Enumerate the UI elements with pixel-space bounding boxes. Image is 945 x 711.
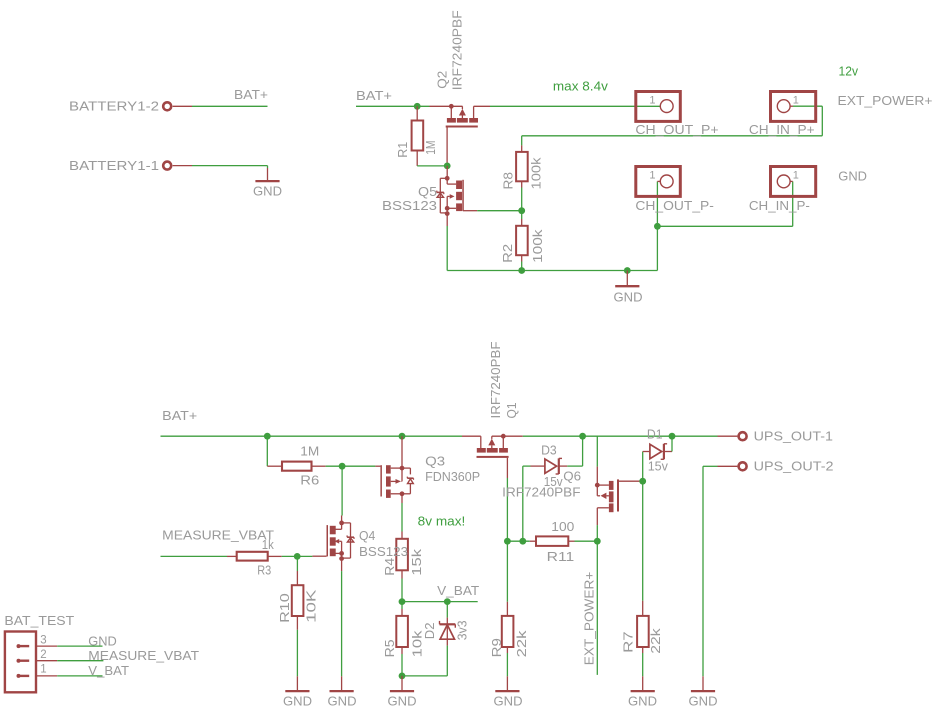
resistor R4 15k	[382, 532, 424, 579]
svg-text:GND: GND	[628, 693, 657, 708]
node junction R2/rail	[518, 267, 525, 274]
svg-text:R6: R6	[300, 472, 319, 487]
svg-text:UPS_OUT-1: UPS_OUT-1	[754, 428, 833, 443]
pin 3	[36, 645, 57, 647]
ground GND (UPS_OUT-2)	[689, 676, 718, 708]
svg-text:GND: GND	[253, 183, 282, 198]
transistor Q5 BSS123	[382, 166, 477, 226]
resistor R1 1M	[395, 106, 438, 166]
node junction BAT+/Q3	[399, 433, 406, 440]
svg-text:Q1: Q1	[504, 403, 519, 419]
svg-text:GND: GND	[88, 633, 117, 648]
wire Q5 source down	[446, 226, 448, 271]
connector CH_OUT_P-	[635, 167, 714, 213]
svg-text:D3: D3	[541, 442, 557, 457]
ground GND (Q4)	[328, 676, 357, 708]
svg-text:12v: 12v	[839, 64, 859, 79]
svg-text:1: 1	[40, 664, 46, 676]
resistor R8 100k	[501, 145, 544, 189]
svg-text:R1: R1	[395, 142, 410, 158]
svg-text:BSS123: BSS123	[382, 198, 437, 213]
svg-text:CH_OUT_P-: CH_OUT_P-	[635, 198, 714, 213]
connector pin BATTERY1-1	[69, 158, 192, 173]
pin 2	[36, 660, 57, 662]
svg-text:CH_IN_P-: CH_IN_P-	[749, 198, 810, 213]
svg-text:GND: GND	[689, 693, 718, 708]
svg-text:1M: 1M	[300, 443, 319, 458]
wire D3 anode riser	[523, 466, 531, 541]
wire net V_BAT stub (BAT_TEST pin 1)	[57, 663, 129, 678]
svg-text:R11: R11	[547, 549, 575, 564]
svg-text:GND: GND	[614, 290, 643, 305]
wire Q1 gate down	[506, 478, 508, 541]
svg-text:R4: R4	[382, 558, 397, 576]
wire Q5 gate to divider	[477, 210, 522, 212]
svg-text:R8: R8	[501, 172, 516, 189]
wire battery1-1 to ground	[192, 166, 268, 168]
svg-text:GND: GND	[328, 693, 357, 708]
node junction BAT+/R1	[414, 103, 421, 110]
wire R2 to bottom rail	[521, 262, 523, 271]
svg-text:max 8.4v: max 8.4v	[553, 78, 609, 93]
resistor R6 1M	[267, 443, 325, 487]
wire R9 top	[506, 541, 508, 602]
svg-text:FDN360P: FDN360P	[425, 469, 480, 484]
svg-text:GND: GND	[494, 693, 523, 708]
node junction R3/R10	[294, 553, 301, 560]
wire R1 to Q5 drain	[417, 165, 447, 167]
wire net BAT+ top rail left	[356, 88, 430, 106]
wire Q6 drain to R11 node	[596, 525, 598, 541]
wire R3 to Q4 gate	[282, 555, 313, 557]
wire net BAT+ to CH_OUT_P+	[490, 105, 660, 107]
wire D2 to ground rail	[402, 646, 447, 676]
diode D3 15v zener	[531, 442, 568, 489]
svg-text:1: 1	[793, 95, 799, 107]
svg-text:R2: R2	[500, 244, 515, 263]
node junction CH_OUT_P-/CH_IN_P-	[654, 223, 661, 230]
resistor R11 100	[530, 519, 575, 564]
svg-text:100: 100	[551, 519, 574, 534]
wire net MEASURE_VBAT stub (BAT_TEST pin 2)	[57, 648, 199, 663]
node junction Q6gate/D1/R7	[639, 478, 646, 485]
wire D3 cathode to rail	[567, 436, 582, 466]
connector pin UPS_OUT-1	[718, 428, 834, 443]
svg-text:BSS123: BSS123	[359, 544, 408, 559]
svg-text:BATTERY1-2: BATTERY1-2	[69, 99, 159, 114]
transistor Q6 IRF7240PBF	[502, 467, 643, 525]
connector CH_IN_P-	[749, 167, 816, 213]
svg-text:GND: GND	[283, 693, 312, 708]
wire Q6 gate node down to R7	[642, 481, 644, 601]
wire R7 bottom	[642, 653, 644, 676]
svg-text:BAT+: BAT+	[356, 88, 392, 103]
wire R4 to V_BAT node	[401, 579, 403, 602]
node junction R11/Q6/EXT_POWER+	[594, 538, 601, 545]
svg-text:22k: 22k	[514, 630, 529, 657]
svg-text:15v: 15v	[648, 458, 669, 473]
SECTION-TOP	[69, 10, 933, 304]
node junction D3/R11	[519, 538, 526, 545]
svg-text:CH_IN_P+: CH_IN_P+	[749, 122, 815, 137]
wire D1 cathode to rail	[671, 436, 673, 451]
svg-text:Q5: Q5	[418, 184, 437, 199]
ground GND (R10)	[283, 676, 312, 708]
diode D1 15v zener	[643, 426, 672, 473]
connector CH_IN_P+	[749, 92, 816, 138]
wire UPS_OUT-2 to ground	[703, 466, 718, 676]
svg-text:Q2: Q2	[435, 71, 450, 89]
node junction R4/R5/V_BAT	[399, 598, 406, 605]
node junction Q1gate/R9/R11	[504, 538, 511, 545]
svg-text:8v max!: 8v max!	[418, 514, 466, 529]
node junction R6/Q4	[339, 463, 346, 470]
connector CH_OUT_P+	[635, 92, 718, 138]
transistor Q2 IRF7240PBF	[430, 10, 491, 166]
svg-text:15k: 15k	[409, 548, 424, 575]
svg-text:Q6: Q6	[563, 468, 581, 483]
ground GND (R9)	[494, 676, 523, 708]
wire R6 to Q3 gate	[326, 465, 376, 467]
resistor R7 22k	[621, 601, 663, 654]
wire net MEASURE_VBAT	[161, 555, 228, 557]
svg-text:GND: GND	[388, 693, 417, 708]
wire junction to R2	[521, 211, 523, 219]
transistor Q1 IRF7240PBF	[462, 341, 523, 478]
resistor R3 1k	[227, 537, 282, 577]
connector pin UPS_OUT-2	[718, 458, 834, 473]
resistor R5 10k	[382, 609, 425, 657]
wire net V_BAT	[402, 583, 479, 602]
svg-text:IRF7240PBF: IRF7240PBF	[450, 10, 465, 90]
wire net CH_OUT/R8 top	[522, 106, 823, 145]
svg-text:100k: 100k	[529, 157, 544, 190]
svg-text:EXT_POWER+: EXT_POWER+	[838, 93, 933, 108]
wire R8 bottom	[521, 188, 523, 211]
wire junction to D3 node	[507, 540, 529, 542]
svg-text:1M: 1M	[423, 141, 438, 155]
wire R5 bottom	[401, 654, 403, 676]
svg-text:3: 3	[40, 635, 46, 647]
transistor Q4 BSS123	[312, 516, 408, 572]
wire net EXT_POWER+ stub	[582, 541, 598, 675]
connector pin BATTERY1-2	[69, 99, 192, 114]
pin 1	[36, 675, 57, 677]
svg-text:10k: 10k	[409, 630, 424, 657]
svg-text:R10: R10	[277, 593, 292, 623]
wire rail down to Q6	[596, 436, 598, 466]
wire Q4 source to ground	[341, 571, 343, 676]
node junction rail/D3	[579, 433, 586, 440]
svg-text:R7: R7	[621, 631, 636, 653]
svg-text:IRF7240PBF: IRF7240PBF	[488, 341, 503, 418]
svg-text:CH_OUT_P+: CH_OUT_P+	[635, 122, 718, 137]
wire rail up to CH_OUT_P-	[656, 181, 658, 270]
resistor R9 22k	[489, 602, 529, 658]
wire R5 top	[401, 602, 403, 609]
svg-text:BAT+: BAT+	[162, 408, 197, 423]
node junction R8/R2/Q5gate	[518, 207, 525, 214]
wire Q6 gate node up to D1	[642, 452, 644, 482]
svg-text:1k: 1k	[262, 537, 274, 552]
svg-text:3v3: 3v3	[454, 621, 469, 641]
ground GND (R5)	[388, 676, 417, 709]
svg-text:100k: 100k	[530, 229, 545, 263]
svg-text:D1: D1	[647, 426, 663, 441]
wire net BAT+ (battery stub)	[192, 87, 268, 107]
svg-text:2: 2	[40, 649, 46, 661]
svg-text:IRF7240PBF: IRF7240PBF	[502, 484, 580, 499]
transistor Q3 FDN360P	[375, 436, 480, 503]
wire R9 bottom	[506, 653, 508, 676]
ground GND (battery)	[253, 168, 282, 198]
svg-text:R9: R9	[489, 638, 504, 657]
wire Q3 to R4	[401, 503, 403, 532]
svg-text:Q3: Q3	[425, 454, 445, 469]
wire R6 node down to Q4	[341, 466, 343, 515]
node junction rail/D1	[669, 433, 676, 440]
svg-text:BAT_TEST: BAT_TEST	[4, 613, 74, 628]
svg-text:R5: R5	[382, 640, 397, 658]
svg-text:V_BAT: V_BAT	[88, 663, 129, 678]
svg-text:1: 1	[793, 170, 799, 182]
node junction R1/Q5	[444, 163, 451, 170]
node junction rail/GND	[624, 267, 631, 274]
node junction BAT+/R6	[264, 433, 271, 440]
svg-text:BAT+: BAT+	[234, 87, 268, 102]
svg-text:MEASURE_VBAT: MEASURE_VBAT	[88, 648, 199, 663]
diode D2 3v3 zener	[422, 618, 470, 646]
SECTION-BOTTOM	[4, 341, 833, 708]
wire net GND stub (BAT_TEST pin 3)	[57, 633, 117, 648]
svg-text:MEASURE_VBAT: MEASURE_VBAT	[162, 528, 274, 543]
node junction R5/D2/GND	[399, 673, 406, 680]
svg-text:EXT_POWER+: EXT_POWER+	[582, 572, 597, 666]
wire R10 top	[296, 556, 298, 571]
wire V_BAT down to D2	[446, 602, 448, 618]
svg-text:22k: 22k	[648, 628, 663, 654]
ground GND (charger divider)	[614, 271, 643, 305]
wire BAT+ down to R6	[266, 436, 268, 466]
resistor R2 100k	[500, 219, 545, 263]
svg-text:10K: 10K	[304, 589, 319, 623]
wire bottom rail of charger divider	[447, 270, 657, 272]
svg-text:GND: GND	[838, 168, 867, 183]
svg-text:BATTERY1-1: BATTERY1-1	[69, 158, 159, 173]
svg-text:UPS_OUT-2: UPS_OUT-2	[754, 458, 834, 473]
wire R10 to ground	[296, 630, 298, 677]
resistor R10 10K	[277, 571, 318, 630]
wire net BAT+ lower rail	[161, 435, 718, 437]
svg-text:V_BAT: V_BAT	[437, 583, 479, 598]
ground GND (R7)	[628, 676, 657, 708]
svg-text:1: 1	[649, 170, 655, 182]
svg-text:1: 1	[649, 95, 655, 107]
svg-text:Q4: Q4	[359, 528, 375, 543]
connector BAT_TEST	[4, 613, 74, 692]
wire R11 to Q6/EXT node	[575, 540, 598, 542]
node junction V_BAT/D2	[444, 598, 451, 605]
svg-text:R3: R3	[257, 562, 271, 577]
wire to CH_IN_P-	[657, 181, 792, 226]
